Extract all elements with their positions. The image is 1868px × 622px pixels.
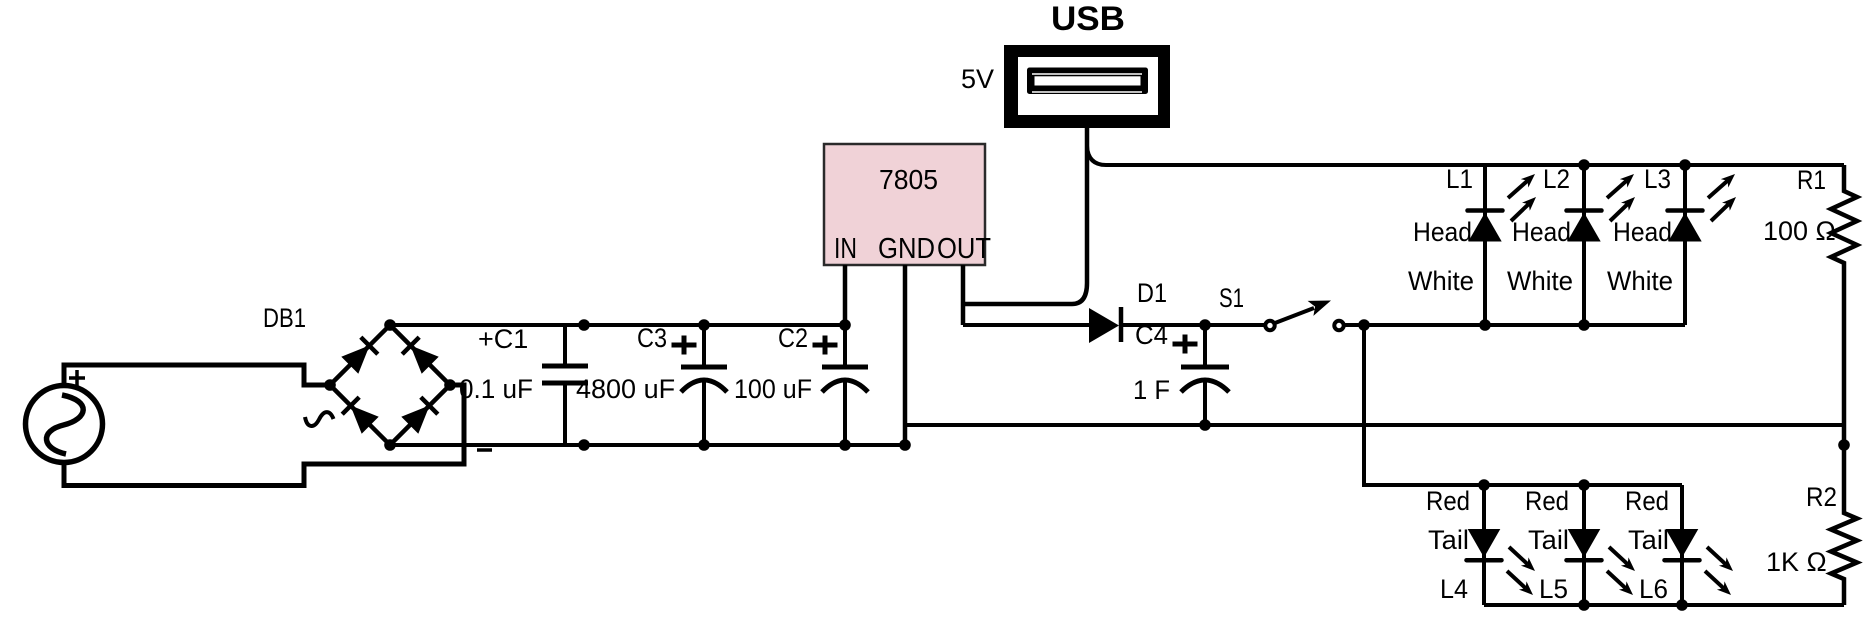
- switch S1: [1265, 301, 1343, 331]
- svg-text:GND: GND: [878, 233, 935, 265]
- svg-text:Tail: Tail: [1528, 525, 1569, 555]
- wire ground rail left: [390, 443, 905, 447]
- svg-text:Head: Head: [1512, 217, 1571, 247]
- svg-text:C2: C2: [778, 323, 808, 353]
- wire switch junction down to tail bank: [1364, 325, 1682, 485]
- svg-text:OUT: OUT: [937, 233, 991, 265]
- AC source V1: [26, 370, 103, 463]
- pin IN wire: [843, 265, 848, 325]
- LED L6 red tail: [1665, 485, 1734, 605]
- svg-text:Head: Head: [1613, 217, 1672, 247]
- wire tail bottom to R2: [1484, 599, 1844, 611]
- regulator U1 7805: [824, 144, 991, 265]
- svg-text:S1: S1: [1219, 283, 1244, 313]
- svg-text:R1: R1: [1797, 165, 1826, 195]
- svg-text:R2: R2: [1806, 482, 1837, 512]
- diode D1: [1089, 307, 1121, 343]
- pin OUT wire: [961, 265, 966, 325]
- LED L4 red tail: [1467, 485, 1536, 605]
- svg-text:+C1: +C1: [478, 324, 528, 354]
- pin GND wire: [899, 265, 911, 451]
- bridge diode bottom-left: [342, 397, 379, 434]
- svg-text:DB1: DB1: [263, 303, 306, 333]
- svg-text:Head: Head: [1413, 217, 1472, 247]
- svg-text:Tail: Tail: [1628, 525, 1669, 555]
- capacitor C3: [672, 319, 728, 451]
- svg-text:5V: 5V: [961, 64, 994, 94]
- svg-text:4800 uF: 4800 uF: [576, 374, 675, 404]
- svg-text:Red: Red: [1625, 486, 1669, 516]
- junction dots tail top wire: [1478, 479, 1590, 491]
- wire USB branch to headlight top rail: [1087, 146, 1844, 165]
- svg-text:Tail: Tail: [1428, 525, 1469, 555]
- wire top rail bridge to 7805 IN: [390, 323, 845, 327]
- bridge rectifier DB1: [305, 319, 456, 451]
- svg-text:D1: D1: [1137, 278, 1167, 308]
- svg-text:L6: L6: [1639, 574, 1668, 604]
- bridge diode bottom-right: [401, 397, 438, 434]
- svg-text:L5: L5: [1539, 574, 1568, 604]
- svg-text:1K Ω: 1K Ω: [1766, 547, 1827, 577]
- bridge diode top-left: [341, 337, 378, 374]
- svg-text:L1: L1: [1446, 164, 1473, 194]
- svg-text:0.1 uF: 0.1 uF: [459, 374, 533, 404]
- wire ground rail right: [905, 423, 1844, 427]
- resistor R1 and R2 vertical chain: [1831, 165, 1857, 605]
- svg-text:L3: L3: [1644, 164, 1671, 194]
- svg-text:Red: Red: [1525, 486, 1569, 516]
- LED L1 head white: [1468, 165, 1537, 325]
- svg-text:White: White: [1507, 266, 1573, 296]
- svg-text:C3: C3: [637, 323, 667, 353]
- svg-text:White: White: [1607, 266, 1673, 296]
- LED L2 head white: [1567, 165, 1636, 325]
- LED L3 head white: [1668, 165, 1737, 325]
- svg-text:USB: USB: [1051, 0, 1125, 38]
- capacitor C2: [813, 319, 869, 451]
- svg-text:100 Ω: 100 Ω: [1763, 216, 1836, 246]
- wire USB stub down and curve to OUT: [963, 128, 1087, 304]
- svg-text:C4: C4: [1135, 320, 1168, 350]
- USB connector J1: [1004, 45, 1170, 128]
- svg-text:100 uF: 100 uF: [734, 374, 812, 404]
- wire AC top to bridge left vertex: [64, 365, 330, 387]
- wire D1 to switch: [1121, 319, 1265, 331]
- svg-text:7805: 7805: [879, 164, 938, 195]
- svg-text:White: White: [1408, 266, 1474, 296]
- svg-text:L4: L4: [1440, 574, 1468, 604]
- svg-text:1 F: 1 F: [1133, 375, 1170, 405]
- bridge diode top-right: [402, 337, 439, 374]
- wire OUT to D1: [963, 323, 1089, 327]
- AC wave mark: [305, 412, 334, 426]
- capacitor C4: [1173, 325, 1230, 431]
- svg-text:Red: Red: [1426, 486, 1470, 516]
- svg-text:L2: L2: [1543, 164, 1570, 194]
- wire AC bottom to bridge right vertex: [64, 385, 464, 486]
- svg-text:IN: IN: [834, 233, 857, 265]
- capacitor C1: [477, 319, 590, 451]
- wire switch to headlight bank: [1344, 319, 1685, 331]
- junction dots headlight top rail: [1578, 159, 1691, 171]
- LED L5 red tail: [1567, 485, 1636, 605]
